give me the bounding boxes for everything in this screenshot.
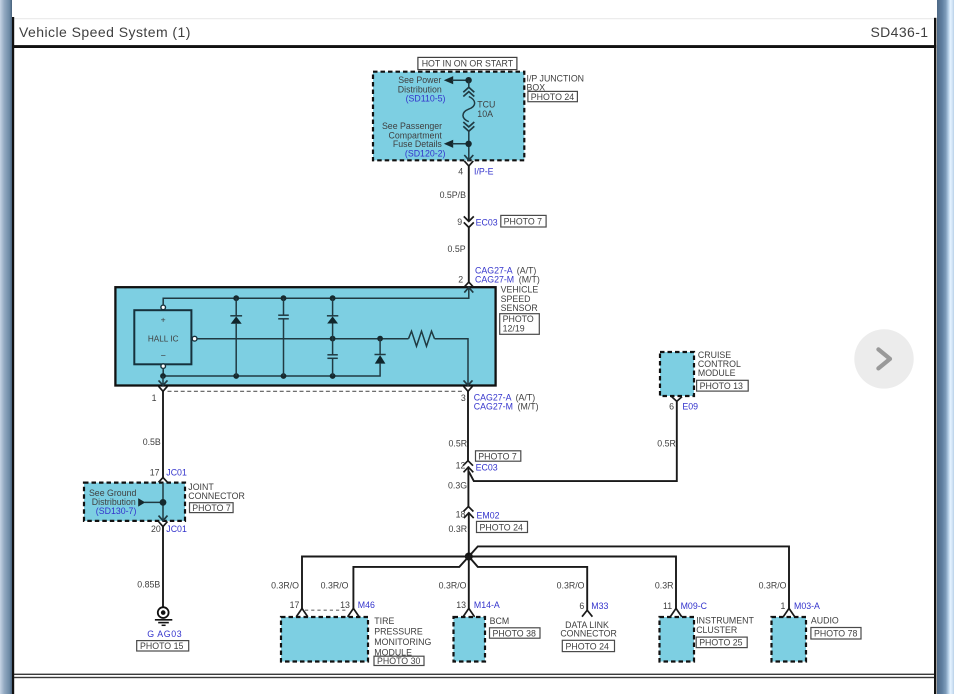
svg-text:0.5P/B: 0.5P/B	[440, 190, 467, 200]
svg-text:+: +	[161, 314, 166, 324]
connector 20 JC01 exit	[151, 516, 187, 534]
svg-text:(M/T): (M/T)	[518, 401, 539, 411]
wire EM02 to junction	[468, 512, 470, 556]
connector boundary dashed line	[168, 390, 464, 392]
svg-text:0.3R/O: 0.3R/O	[439, 580, 467, 590]
svg-text:PRESSURE: PRESSURE	[374, 626, 423, 636]
svg-text:0.3R/O: 0.3R/O	[759, 580, 787, 590]
label I/P JUNCTION BOX	[527, 73, 585, 92]
diode D2 branch	[327, 298, 338, 355]
node dots on middle rail	[330, 336, 336, 342]
resistor R (in sensor)	[409, 331, 435, 346]
svg-text:0.3R/O: 0.3R/O	[321, 580, 349, 590]
photo ref PHOTO 7	[501, 215, 546, 227]
svg-text:PHOTO 13: PHOTO 13	[700, 381, 743, 391]
wire fuse box to EC03	[468, 166, 470, 221]
svg-text:0.3R/O: 0.3R/O	[271, 580, 299, 590]
instrument cluster box	[660, 617, 695, 662]
node dot lower fuse feed	[465, 141, 471, 147]
wire junction to M46 pin 13	[353, 557, 468, 609]
svg-text:13: 13	[340, 600, 350, 610]
wire top rail	[163, 288, 469, 306]
photo ref PHOTO 13	[697, 380, 749, 391]
svg-text:9: 9	[457, 217, 462, 227]
svg-text:6: 6	[669, 401, 674, 411]
svg-text:EM02: EM02	[477, 511, 500, 521]
svg-text:TIRE: TIRE	[374, 616, 394, 626]
label TIRE PRESSURE MONITORING MODULE	[374, 616, 431, 658]
svg-text:M14-A: M14-A	[474, 600, 500, 610]
pin 6 E09 fork	[669, 397, 698, 412]
svg-text:0.3R: 0.3R	[655, 580, 674, 590]
svg-text:CAG27-M: CAG27-M	[474, 401, 513, 411]
pin 13 fork at TPMS	[348, 608, 360, 617]
svg-text:CONNECTOR: CONNECTOR	[188, 491, 245, 501]
svg-text:20: 20	[151, 524, 161, 534]
svg-text:MODULE: MODULE	[698, 368, 736, 378]
see ground distribution note	[89, 488, 137, 516]
photo ref PHOTO 30	[374, 656, 424, 666]
svg-text:M09-C: M09-C	[681, 601, 708, 611]
frame right vertical line	[934, 18, 936, 694]
connector 9 EC03 inline	[457, 216, 497, 227]
audio box	[772, 617, 807, 662]
label JOINT CONNECTOR	[188, 482, 245, 501]
node dots on bottom rail	[160, 373, 166, 379]
svg-text:13: 13	[456, 600, 466, 610]
pin labels 13 M14-A	[456, 600, 500, 610]
frame left vertical line	[12, 17, 14, 694]
photo ref PHOTO 15	[137, 641, 189, 652]
svg-text:0.5B: 0.5B	[143, 437, 161, 447]
svg-text:SENSOR: SENSOR	[501, 303, 538, 313]
svg-text:EC03: EC03	[476, 463, 498, 473]
label CRUISE CONTROL MODULE	[698, 350, 741, 378]
title underline thick	[12, 45, 936, 48]
svg-text:2: 2	[458, 275, 463, 285]
label DATA LINK CONNECTOR	[560, 620, 617, 638]
svg-text:PHOTO 25: PHOTO 25	[699, 637, 742, 647]
svg-text:PHOTO 7: PHOTO 7	[504, 217, 543, 227]
svg-text:HALL IC: HALL IC	[148, 335, 179, 344]
pin 6 fork at data link connector	[582, 610, 592, 617]
photo ref PHOTO 24	[528, 91, 578, 102]
svg-text:PHOTO 24: PHOTO 24	[566, 641, 609, 651]
connector 17 JC01 entry	[150, 468, 187, 489]
svg-text:(SD110-5): (SD110-5)	[406, 93, 446, 103]
wire VSS pin3 down to EC03	[467, 391, 469, 461]
svg-text:G AG03: G AG03	[147, 629, 182, 639]
node dot in JC01	[160, 499, 167, 506]
svg-text:PHOTO 38: PHOTO 38	[493, 628, 536, 638]
hall - terminal circle	[161, 364, 166, 369]
svg-text:11: 11	[663, 601, 672, 611]
title bar top faint line	[14, 18, 934, 19]
see power distribution note	[398, 75, 446, 103]
BCM box	[454, 617, 486, 662]
arrow to ground distribution	[138, 498, 163, 506]
svg-text:CAG27-M: CAG27-M	[475, 275, 514, 285]
svg-text:PHOTO 7: PHOTO 7	[192, 503, 231, 513]
bottom double line lower	[14, 677, 934, 678]
wire JC01 to ground	[162, 527, 164, 607]
svg-text:3: 3	[461, 393, 466, 403]
fuse TCU 10A	[463, 80, 495, 160]
svg-text:12/19: 12/19	[503, 324, 525, 334]
photo ref PHOTO 38	[490, 628, 541, 639]
svg-text:0.3R: 0.3R	[449, 524, 468, 534]
connector 18 EM02 inline	[456, 507, 500, 521]
wire EC03 to EM02	[467, 467, 469, 507]
svg-text:1: 1	[152, 393, 157, 403]
svg-text:0.3G: 0.3G	[448, 481, 467, 491]
pin 2 entry symbol at VSS top	[464, 282, 473, 293]
svg-text:1: 1	[780, 601, 785, 611]
pin 13 fork at BCM	[463, 608, 475, 617]
svg-text:0.3R/O: 0.3R/O	[557, 580, 585, 590]
svg-text:HOT IN ON OR START: HOT IN ON OR START	[422, 59, 514, 69]
label INSTRUMENT CLUSTER	[696, 615, 754, 635]
photo ref PHOTO 25	[696, 637, 747, 648]
svg-text:18: 18	[456, 510, 466, 520]
svg-text:0.5R: 0.5R	[449, 438, 468, 448]
svg-text:0.85B: 0.85B	[137, 580, 160, 590]
photo ref PHOTO 7 (EC03)	[476, 451, 521, 462]
svg-text:PHOTO 7: PHOTO 7	[478, 451, 517, 461]
svg-text:CLUSTER: CLUSTER	[696, 625, 737, 635]
svg-text:PHOTO 78: PHOTO 78	[814, 629, 857, 639]
wire middle rail	[197, 338, 409, 340]
capacitor C1 branch	[278, 298, 289, 376]
photo ref PHOTO 7 (joint connector)	[190, 503, 234, 513]
svg-text:PHOTO 24: PHOTO 24	[531, 92, 574, 102]
svg-text:−: −	[161, 350, 166, 360]
capacitor C2 branch	[327, 355, 337, 376]
net label CAG27-A/M bottom	[474, 392, 539, 411]
svg-text:(M/T): (M/T)	[519, 275, 540, 285]
right blue edge strip	[937, 0, 954, 694]
photo ref PHOTO 24 (data link)	[562, 640, 614, 651]
svg-text:INSTRUMENT: INSTRUMENT	[696, 615, 754, 625]
svg-text:M46: M46	[358, 600, 375, 610]
pin 17 fork at TPMS	[296, 608, 308, 617]
svg-text:SD436-1: SD436-1	[870, 24, 928, 40]
wire middle rail right + down to pin 3	[435, 339, 469, 386]
node: main distribution junction	[465, 553, 473, 561]
see passenger compartment fuse note	[382, 121, 446, 158]
vehicle speed sensor box	[115, 287, 495, 385]
joint connector box JC01	[84, 483, 185, 521]
svg-text:0.5R: 0.5R	[657, 439, 676, 449]
pin labels 17 13 M46	[290, 600, 375, 610]
arrow to power distribution	[444, 76, 469, 84]
wire junction to TPMS pin 17	[302, 557, 469, 609]
pin labels 6 M33	[579, 601, 608, 611]
svg-text:PHOTO 24: PHOTO 24	[480, 523, 523, 533]
photo ref PHOTO 12/19	[500, 314, 540, 335]
pin labels 1 M03-A	[780, 601, 820, 611]
op-amp: hall effect IC box	[134, 310, 191, 364]
wire junction to instrument cluster	[469, 557, 676, 609]
tire pressure monitoring module box	[281, 617, 368, 662]
svg-text:(SD120-2): (SD120-2)	[405, 148, 446, 158]
wire branch to cruise control	[469, 402, 677, 482]
label VEHICLE SPEED SENSOR	[501, 285, 539, 313]
diode D1 branch	[230, 298, 242, 376]
pin 1 exit symbol VSS bottom left	[152, 376, 168, 403]
svg-text:0.5P: 0.5P	[447, 244, 465, 254]
I/P junction box (dashed fuse box)	[373, 72, 524, 161]
svg-text:Vehicle Speed System (1): Vehicle Speed System (1)	[19, 24, 191, 40]
svg-text:M03-A: M03-A	[794, 601, 820, 611]
svg-text:PHOTO 30: PHOTO 30	[377, 656, 420, 666]
svg-text:I/P-E: I/P-E	[474, 167, 494, 177]
wire junction down to BCM	[468, 557, 470, 609]
svg-text:EC03: EC03	[476, 217, 498, 227]
cruise control module box	[660, 352, 694, 396]
node dots on top rail	[233, 295, 239, 301]
svg-text:(SD130-7): (SD130-7)	[96, 506, 137, 516]
hall + terminal circle	[161, 305, 166, 310]
pin 4 I/P-E exit symbol	[458, 155, 493, 177]
svg-text:BCM: BCM	[490, 616, 510, 626]
pin labels 11 M09-C	[663, 601, 708, 611]
wire bottom rail	[163, 364, 380, 376]
pin 3 exit symbol VSS bottom right	[461, 380, 473, 403]
wire junction to data link connector	[469, 557, 587, 611]
arrow to fuse details	[444, 140, 469, 148]
photo ref PHOTO 78	[811, 628, 861, 640]
svg-text:M33: M33	[591, 601, 608, 611]
svg-text:17: 17	[150, 468, 160, 478]
wire VSS pin1 down to JC01	[162, 391, 164, 477]
carousel next button	[854, 329, 913, 388]
svg-text:4: 4	[458, 167, 463, 177]
svg-text:E09: E09	[682, 401, 698, 411]
wire through JC01	[162, 483, 164, 521]
node dot on fuse feed	[465, 77, 471, 83]
svg-text:CONNECTOR: CONNECTOR	[560, 628, 617, 638]
svg-text:10A: 10A	[477, 109, 493, 119]
svg-text:MONITORING: MONITORING	[374, 637, 431, 647]
ground GAG03 symbol	[155, 607, 172, 625]
wire EC03 to VSS pin 2	[468, 227, 470, 282]
hall output terminal circle	[192, 336, 197, 341]
diode D3 branch	[375, 339, 386, 364]
bottom double line upper	[14, 674, 934, 675]
svg-text:17: 17	[290, 600, 300, 610]
HOT IN ON OR START box	[418, 57, 517, 69]
svg-text:AUDIO: AUDIO	[811, 615, 839, 625]
connector 12 EC03 inline	[456, 461, 498, 473]
svg-text:JC01: JC01	[166, 468, 187, 478]
svg-text:JC01: JC01	[166, 524, 187, 534]
net label CAG27-A/M top	[458, 266, 540, 285]
svg-text:PHOTO 15: PHOTO 15	[140, 641, 183, 651]
pin 1 fork at audio	[783, 608, 795, 617]
svg-text:12: 12	[456, 461, 466, 471]
wire junction to audio	[469, 546, 789, 608]
connector internal dashed link 17-13	[305, 609, 348, 611]
photo ref PHOTO 24 (EM02)	[477, 521, 528, 532]
pin 11 fork at instrument cluster	[670, 608, 682, 617]
svg-text:6: 6	[579, 601, 584, 611]
